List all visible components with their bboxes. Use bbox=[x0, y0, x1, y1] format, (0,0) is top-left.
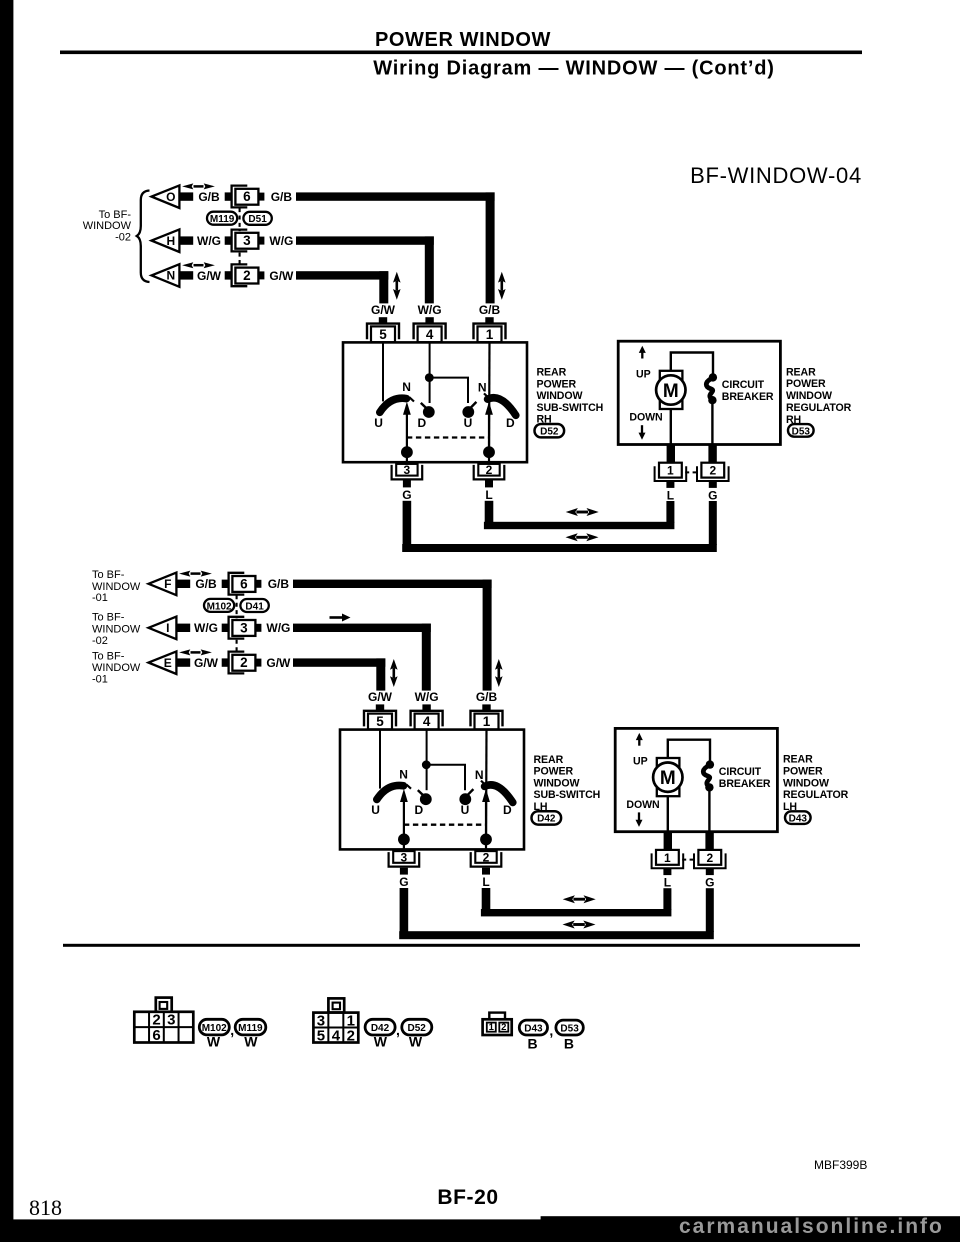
regulator pin 2, net G bbox=[697, 463, 729, 503]
svg-text:E: E bbox=[164, 656, 172, 670]
connector M102 bbox=[204, 599, 234, 612]
svg-text:G/B: G/B bbox=[476, 690, 498, 704]
connector id M119 bbox=[235, 1019, 266, 1035]
svg-text:W/G: W/G bbox=[418, 303, 442, 317]
svg-text:M119: M119 bbox=[210, 214, 235, 225]
svg-text:DOWN: DOWN bbox=[629, 412, 662, 424]
separator rule below diagram bbox=[63, 944, 860, 947]
svg-text:BREAKER: BREAKER bbox=[719, 778, 771, 790]
svg-text:M119: M119 bbox=[238, 1023, 263, 1034]
switch pin 5 (top) bbox=[364, 704, 396, 729]
svg-text:-02: -02 bbox=[115, 232, 131, 244]
inline connector bracket pin 3 bbox=[229, 617, 245, 639]
D contact lever and pole bbox=[418, 790, 425, 797]
pin number 2 box bbox=[232, 655, 255, 671]
switch pin 4 (top) bbox=[411, 704, 443, 729]
inline connector bracket pin 6 bbox=[229, 573, 245, 595]
wire G/W horizontal run bbox=[293, 658, 385, 666]
switch pin 2 (bottom), net L bbox=[471, 850, 502, 889]
DOWN arrow bbox=[636, 812, 643, 827]
svg-text:2: 2 bbox=[706, 851, 713, 865]
wire breaker down bbox=[711, 400, 713, 444]
connector M119 bbox=[207, 212, 237, 225]
svg-text:U: U bbox=[371, 803, 380, 817]
svg-text:To BF-: To BF- bbox=[92, 569, 125, 581]
stub to regulator pin 1 bbox=[664, 832, 672, 850]
pin number 2 box bbox=[235, 268, 258, 284]
connector pin (left half) bbox=[225, 236, 231, 244]
label CIRCUIT BREAKER bbox=[722, 379, 774, 403]
switch arc left (U-N) bbox=[380, 398, 407, 412]
svg-text:G/B: G/B bbox=[268, 577, 290, 591]
svg-text:-01: -01 bbox=[92, 674, 108, 686]
junction dot pin2 bbox=[483, 446, 495, 458]
svg-text:B: B bbox=[564, 1035, 574, 1051]
switch pin 5 (top) bbox=[367, 317, 399, 342]
svg-text:6: 6 bbox=[240, 576, 248, 591]
svg-text:W/G: W/G bbox=[197, 234, 221, 248]
switch pin 3 (bottom), net G bbox=[389, 850, 420, 889]
svg-text:D43: D43 bbox=[789, 814, 808, 825]
connector id D52 bbox=[402, 1019, 432, 1035]
svg-text:carmanualsonline.info: carmanualsonline.info bbox=[679, 1215, 944, 1238]
svg-text:,: , bbox=[549, 1023, 553, 1039]
svg-text:CIRCUIT: CIRCUIT bbox=[719, 766, 762, 778]
svg-text:BF-20: BF-20 bbox=[437, 1186, 498, 1209]
switch pin 4 (top) bbox=[414, 317, 446, 342]
svg-text:G/W: G/W bbox=[368, 690, 393, 704]
svg-text:UP: UP bbox=[636, 368, 651, 380]
svg-text:-02: -02 bbox=[92, 635, 108, 647]
svg-text:POWER: POWER bbox=[534, 766, 574, 778]
vertical double arrow beside G/W drop bbox=[393, 272, 401, 300]
connector pin (right half) bbox=[256, 624, 262, 632]
regulator pin 1, net L bbox=[652, 850, 684, 890]
wire G/W horizontal run bbox=[296, 271, 388, 279]
motor M REAR POWER WINDOW REGULATOR RH bbox=[656, 371, 685, 409]
svg-text:BF-WINDOW-04: BF-WINDOW-04 bbox=[690, 163, 862, 188]
svg-text:Wiring Diagram — WINDOW — (Con: Wiring Diagram — WINDOW — (Cont’d) bbox=[373, 58, 774, 80]
svg-text:WINDOW: WINDOW bbox=[92, 662, 141, 674]
svg-text:D52: D52 bbox=[540, 427, 559, 438]
moving contact arrow right bbox=[488, 413, 490, 453]
wire G/B vertical drop bbox=[486, 192, 495, 303]
svg-text:To BF-: To BF- bbox=[99, 209, 132, 221]
wire pin1 down to pin2 bbox=[488, 342, 491, 462]
svg-text:POWER: POWER bbox=[783, 765, 823, 777]
wire stub from O bbox=[179, 192, 193, 200]
svg-text:L: L bbox=[482, 875, 489, 889]
svg-text:2: 2 bbox=[501, 1022, 506, 1033]
svg-text:W/G: W/G bbox=[266, 621, 290, 635]
svg-text:N: N bbox=[478, 381, 487, 395]
double arrow above node N bbox=[182, 262, 215, 268]
connector pin (left half) bbox=[222, 658, 228, 666]
wire G net: switch pin3 drop bbox=[403, 501, 412, 545]
pin number 6 box bbox=[232, 576, 255, 592]
connector pin (right half) bbox=[256, 659, 262, 667]
connector id D42 bbox=[365, 1019, 395, 1035]
svg-text:D51: D51 bbox=[248, 214, 267, 225]
label REAR POWER WINDOW SUB-SWITCH RH name bbox=[537, 367, 604, 426]
svg-text:D: D bbox=[503, 803, 512, 817]
label REAR POWER WINDOW SUB-SWITCH LH name bbox=[534, 754, 601, 813]
svg-text:G/W: G/W bbox=[194, 656, 219, 670]
svg-text:G/B: G/B bbox=[198, 190, 220, 204]
svg-text:REAR: REAR bbox=[783, 754, 813, 766]
wire motor to breaker top bbox=[668, 740, 710, 762]
svg-text:818: 818 bbox=[29, 1195, 62, 1220]
svg-text:2: 2 bbox=[709, 464, 716, 478]
U contact lever and pole bbox=[467, 789, 474, 796]
svg-text:D42: D42 bbox=[537, 814, 556, 825]
node N: harness triangle bbox=[152, 264, 180, 287]
svg-text:G/W: G/W bbox=[371, 303, 396, 317]
svg-text:WINDOW: WINDOW bbox=[534, 777, 580, 789]
dashed link between regulator pins bbox=[685, 471, 698, 473]
wire breaker down bbox=[708, 787, 710, 831]
svg-text:2: 2 bbox=[483, 850, 490, 864]
node H: harness triangle bbox=[152, 229, 180, 252]
svg-text:4: 4 bbox=[423, 714, 431, 729]
svg-text:W/G: W/G bbox=[415, 690, 439, 704]
switch pin 1 (top) bbox=[471, 704, 503, 729]
svg-text:3: 3 bbox=[404, 463, 411, 477]
motor M REAR POWER WINDOW REGULATOR LH bbox=[653, 758, 682, 796]
UP arrow bbox=[639, 346, 646, 359]
wire stub from I bbox=[176, 624, 190, 632]
connector pin (right half) bbox=[256, 580, 262, 588]
switch arc left (U-N) bbox=[377, 785, 404, 799]
junction dot pin3 bbox=[398, 834, 410, 846]
wire L net: regulator pin1 drop bbox=[663, 888, 671, 910]
dashed connector link below pin 3 bbox=[236, 640, 238, 653]
vertical double arrow beside G/B drop bbox=[498, 272, 506, 300]
wire L net: regulator pin1 drop bbox=[666, 501, 674, 523]
svg-text:2: 2 bbox=[347, 1027, 355, 1044]
svg-text:WINDOW: WINDOW bbox=[92, 623, 141, 635]
arrow on G bus bbox=[563, 921, 596, 929]
wire G/W vertical drop bbox=[379, 271, 388, 303]
arrow on L bus bbox=[563, 895, 596, 903]
stub to regulator pin 2 bbox=[708, 445, 716, 463]
label To BF-WINDOW-01 (row F) bbox=[92, 569, 141, 604]
double arrow above node O bbox=[182, 183, 215, 189]
node O: harness triangle bbox=[152, 185, 180, 208]
contact gap tick left bbox=[406, 785, 411, 789]
pin number 3 box bbox=[235, 233, 258, 249]
label REAR POWER WINDOW REGULATOR LH name bbox=[783, 754, 849, 802]
svg-text:W: W bbox=[374, 1034, 388, 1050]
node F: harness triangle bbox=[149, 573, 177, 596]
svg-text:D: D bbox=[414, 803, 423, 817]
svg-text:F: F bbox=[164, 577, 171, 591]
svg-text:BREAKER: BREAKER bbox=[722, 391, 774, 403]
wire pin1 down to pin2 bbox=[485, 730, 488, 850]
svg-text:D: D bbox=[417, 416, 426, 430]
svg-text:L: L bbox=[485, 488, 492, 502]
wire G net: regulator pin2 drop bbox=[709, 501, 717, 545]
svg-text:2: 2 bbox=[243, 268, 251, 283]
D contact lever and pole bbox=[421, 403, 428, 410]
connector view M102/M119 bbox=[134, 998, 193, 1045]
wire motor down bbox=[667, 796, 669, 832]
svg-text:REAR: REAR bbox=[786, 366, 816, 378]
svg-text:N: N bbox=[475, 768, 484, 782]
regulator pin 1, net L bbox=[655, 463, 687, 503]
svg-text:G/B: G/B bbox=[195, 577, 217, 591]
wire pin4 with junction bbox=[429, 342, 431, 403]
label To BF-WINDOW-02 bbox=[83, 209, 132, 244]
wire stub from H bbox=[179, 236, 193, 244]
svg-text:4: 4 bbox=[426, 327, 434, 342]
switch arc right (N-D) bbox=[485, 785, 513, 803]
DOWN arrow bbox=[639, 425, 646, 440]
svg-text:3: 3 bbox=[243, 233, 251, 248]
sub-switch REAR POWER WINDOW SUB-SWITCH RH box bbox=[343, 342, 527, 462]
arrow on L bus bbox=[566, 508, 599, 516]
svg-text:WINDOW: WINDOW bbox=[92, 581, 141, 593]
pin number 3 box bbox=[232, 620, 255, 636]
connector pin (left half) bbox=[225, 271, 231, 279]
connector pin (right half) bbox=[259, 271, 265, 279]
arrow on G bus bbox=[566, 533, 599, 541]
bottom black bar bbox=[0, 1219, 960, 1242]
wire G/B vertical drop bbox=[483, 580, 492, 691]
svg-text:W/G: W/G bbox=[194, 621, 218, 635]
wire stub from F bbox=[176, 580, 190, 588]
svg-text:DOWN: DOWN bbox=[626, 799, 659, 811]
wire G/B horizontal run bbox=[296, 192, 495, 200]
connector pin (left half) bbox=[222, 580, 228, 588]
svg-text:,: , bbox=[396, 1022, 400, 1038]
double arrow above node E bbox=[179, 649, 212, 655]
connector pin (left half) bbox=[225, 192, 231, 200]
branch wire to U contact bbox=[426, 765, 465, 790]
svg-text:L: L bbox=[664, 876, 671, 890]
svg-text:D52: D52 bbox=[408, 1023, 427, 1034]
dashed connector link below pin 6 bbox=[236, 595, 238, 618]
svg-text:,: , bbox=[230, 1022, 234, 1038]
svg-text:1: 1 bbox=[489, 1022, 495, 1033]
label To BF-WINDOW-01 (row E) bbox=[92, 650, 141, 685]
connector pin (right half) bbox=[259, 193, 265, 201]
svg-text:D53: D53 bbox=[792, 426, 811, 437]
label REAR POWER WINDOW REGULATOR RH name bbox=[786, 366, 852, 414]
svg-text:U: U bbox=[464, 416, 473, 430]
svg-text:REGULATOR: REGULATOR bbox=[786, 402, 852, 414]
svg-text:D42: D42 bbox=[371, 1023, 390, 1034]
junction dot pin3 bbox=[401, 446, 413, 458]
svg-text:3: 3 bbox=[401, 850, 408, 864]
svg-text:POWER: POWER bbox=[786, 378, 826, 390]
connector view D43/D53 bbox=[483, 1013, 512, 1035]
svg-text:N: N bbox=[166, 269, 175, 283]
connector id D43 bbox=[783, 801, 811, 825]
pin number 6 box bbox=[235, 189, 258, 205]
wire G bus bar bbox=[402, 544, 717, 552]
wire L bus bar bbox=[484, 522, 675, 529]
interlock dashed link bbox=[407, 436, 489, 438]
svg-text:MBF399B: MBF399B bbox=[814, 1158, 867, 1172]
svg-text:WINDOW: WINDOW bbox=[537, 390, 583, 402]
svg-text:H: H bbox=[166, 234, 175, 248]
circuit breaker symbol bbox=[703, 760, 714, 791]
dashed connector link below pin 6 bbox=[239, 208, 241, 231]
junction dot pin2 bbox=[480, 834, 492, 846]
svg-text:G/W: G/W bbox=[197, 269, 222, 283]
svg-text:D41: D41 bbox=[245, 601, 264, 612]
svg-text:POWER WINDOW: POWER WINDOW bbox=[375, 29, 551, 51]
svg-text:4: 4 bbox=[332, 1027, 341, 1044]
node E: harness triangle bbox=[149, 651, 177, 674]
connector pin (right half) bbox=[259, 237, 265, 245]
svg-text:N: N bbox=[399, 767, 408, 781]
connector id D52 bbox=[535, 424, 565, 438]
wire L net: switch pin2 drop bbox=[482, 888, 491, 910]
switch pin 2 (bottom), net L bbox=[474, 463, 505, 502]
wire W/G horizontal run bbox=[296, 236, 434, 244]
label To BF-WINDOW-02 (row I) bbox=[92, 612, 141, 647]
svg-text:L: L bbox=[667, 488, 674, 502]
svg-text:M: M bbox=[663, 381, 679, 402]
UP arrow bbox=[636, 733, 643, 746]
svg-text:O: O bbox=[166, 190, 175, 204]
svg-text:N: N bbox=[402, 380, 411, 394]
svg-text:G: G bbox=[708, 488, 717, 502]
svg-text:W/G: W/G bbox=[269, 234, 293, 248]
connector D51 bbox=[243, 212, 271, 225]
inline connector bracket pin 6 bbox=[232, 186, 248, 208]
svg-text:W: W bbox=[409, 1034, 423, 1050]
svg-text:POWER: POWER bbox=[537, 378, 577, 390]
wire L net: switch pin2 drop bbox=[485, 501, 494, 523]
contact gap tick right bbox=[481, 781, 487, 787]
svg-text:REAR: REAR bbox=[537, 367, 567, 379]
svg-text:G: G bbox=[402, 488, 411, 502]
wire pin4 with junction bbox=[426, 730, 428, 791]
wire W/G vertical drop bbox=[425, 236, 434, 303]
svg-text:SUB-SWITCH: SUB-SWITCH bbox=[537, 402, 604, 414]
svg-text:D53: D53 bbox=[560, 1024, 579, 1035]
circuit breaker symbol bbox=[706, 373, 717, 404]
svg-text:-01: -01 bbox=[92, 592, 108, 604]
interlock dashed link bbox=[404, 824, 486, 826]
wire stub from N bbox=[179, 271, 193, 279]
label CIRCUIT BREAKER bbox=[719, 766, 771, 790]
wire motor to breaker top bbox=[671, 353, 713, 375]
double arrow above node F bbox=[179, 571, 212, 577]
svg-text:5: 5 bbox=[317, 1027, 325, 1044]
svg-text:G/W: G/W bbox=[269, 269, 294, 283]
svg-text:3: 3 bbox=[240, 620, 248, 635]
svg-text:SUB-SWITCH: SUB-SWITCH bbox=[534, 789, 601, 801]
svg-text:To BF-: To BF- bbox=[92, 612, 125, 624]
wire G net: regulator pin2 drop bbox=[706, 888, 714, 932]
single arrow on W/G wire bbox=[330, 614, 351, 622]
moving contact arrow right bbox=[485, 800, 487, 840]
vertical double arrow beside G/B drop bbox=[495, 659, 503, 687]
U contact lever and pole bbox=[470, 402, 477, 409]
switch pin 1 (top) bbox=[474, 317, 506, 342]
wire W/G horizontal run bbox=[293, 624, 431, 632]
svg-text:To BF-: To BF- bbox=[92, 650, 125, 662]
svg-text:M102: M102 bbox=[207, 601, 232, 612]
svg-text:6: 6 bbox=[152, 1027, 160, 1044]
svg-text:2: 2 bbox=[240, 655, 248, 670]
wire G/B horizontal run bbox=[293, 580, 492, 588]
svg-text:G: G bbox=[705, 876, 714, 890]
svg-text:WINDOW: WINDOW bbox=[783, 777, 829, 789]
svg-text:G/B: G/B bbox=[271, 190, 293, 204]
svg-text:1: 1 bbox=[667, 464, 674, 478]
svg-text:REGULATOR: REGULATOR bbox=[783, 789, 849, 801]
svg-text:G/W: G/W bbox=[266, 656, 291, 670]
svg-text:REAR: REAR bbox=[534, 754, 564, 766]
svg-text:D: D bbox=[506, 416, 515, 430]
connector id D43 bbox=[519, 1020, 547, 1035]
svg-text:W: W bbox=[207, 1034, 221, 1050]
wire L bus bar bbox=[481, 909, 672, 916]
connector view D42/D52 bbox=[313, 998, 358, 1044]
svg-text:6: 6 bbox=[243, 189, 251, 204]
vertical double arrow beside G/W drop bbox=[390, 659, 398, 687]
svg-text:U: U bbox=[374, 416, 383, 430]
svg-text:UP: UP bbox=[633, 756, 648, 768]
branch wire to U contact bbox=[429, 378, 468, 403]
brace for To BF-WINDOW-02 group bbox=[137, 191, 150, 283]
wire stub from E bbox=[176, 658, 190, 666]
svg-text:1: 1 bbox=[664, 851, 671, 865]
svg-text:5: 5 bbox=[379, 327, 387, 342]
switch arc right (N-D) bbox=[488, 398, 516, 416]
regulator REAR POWER WINDOW REGULATOR LH box bbox=[615, 728, 777, 831]
contact gap tick left bbox=[409, 397, 414, 401]
stub to regulator pin 1 bbox=[667, 445, 675, 463]
header rule bbox=[60, 51, 862, 55]
connector id D42 bbox=[532, 811, 562, 825]
moving contact arrow left bbox=[403, 800, 405, 840]
svg-text:3: 3 bbox=[167, 1012, 175, 1029]
svg-text:5: 5 bbox=[376, 714, 384, 729]
svg-text:WINDOW: WINDOW bbox=[83, 220, 132, 232]
stub to regulator pin 2 bbox=[705, 832, 713, 850]
svg-text:I: I bbox=[166, 621, 169, 635]
connector pin (left half) bbox=[222, 624, 228, 632]
svg-text:1: 1 bbox=[486, 327, 494, 342]
connector id D53 bbox=[786, 414, 814, 438]
svg-text:M: M bbox=[660, 768, 676, 789]
svg-text:G: G bbox=[399, 875, 408, 889]
contact gap tick right bbox=[484, 393, 490, 399]
svg-text:B: B bbox=[528, 1035, 538, 1051]
switch pin 3 (bottom), net G bbox=[392, 463, 423, 502]
wire G/W vertical drop bbox=[376, 658, 385, 690]
svg-text:WINDOW: WINDOW bbox=[786, 390, 832, 402]
page left edge black strip bbox=[0, 0, 13, 1242]
moving contact arrow left bbox=[406, 413, 408, 453]
wire motor down bbox=[670, 409, 672, 445]
inline connector bracket pin 2 bbox=[229, 652, 245, 674]
connector id D53 bbox=[556, 1020, 583, 1035]
wire G net: switch pin3 drop bbox=[400, 888, 409, 932]
regulator REAR POWER WINDOW REGULATOR RH box bbox=[618, 341, 780, 444]
connector id M102 bbox=[199, 1019, 229, 1035]
svg-text:D43: D43 bbox=[524, 1024, 543, 1035]
node I: harness triangle bbox=[149, 617, 177, 640]
wire W/G vertical drop bbox=[422, 624, 431, 691]
wire pin5 to U contact arc bbox=[382, 342, 384, 401]
